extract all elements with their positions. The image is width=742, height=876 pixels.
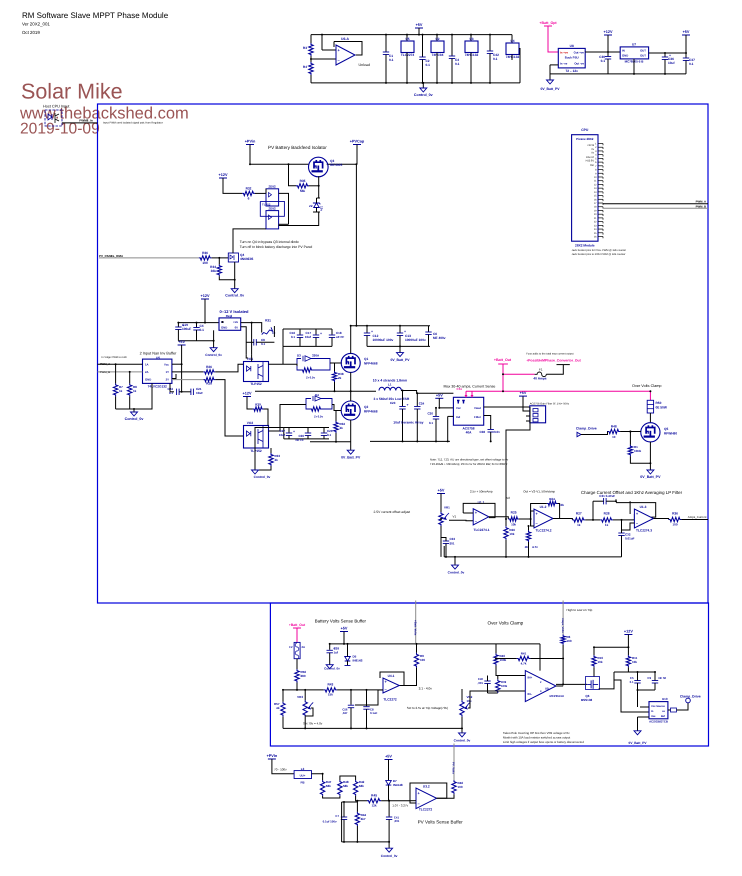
svg-text:In +ve: In +ve (560, 51, 568, 55)
svg-text:C38: C38 (479, 430, 485, 434)
svg-text:4N60E35: 4N60E35 (240, 257, 254, 261)
svg-text:PWM8_In: PWM8_In (79, 119, 93, 123)
ground dcdc (213, 330, 215, 347)
svg-text:0–12 V Isolated: 0–12 V Isolated (220, 309, 249, 314)
svg-text:2A: 2A (145, 370, 149, 374)
capacitor C31 (604, 498, 607, 504)
svg-text:10uf Ceramic Array: 10uf Ceramic Array (393, 421, 423, 425)
svg-text:0.1uf 100v: 0.1uf 100v (323, 820, 337, 824)
svg-text:74HC04: 74HC04 (432, 53, 444, 57)
ground caps (397, 353, 404, 357)
ground Control_0v q4 (231, 289, 238, 293)
svg-text:R28: R28 (604, 512, 610, 516)
wire isolator nets (289, 164, 297, 186)
capacitor C9 (652, 681, 658, 684)
svg-text:2A: 2A (302, 645, 306, 649)
svg-text:10Dk: 10Dk (634, 449, 642, 453)
resistor R48 (608, 429, 621, 433)
svg-text:+Batt_Opt: +Batt_Opt (539, 21, 557, 25)
svg-text:Amps_Current: Amps_Current (688, 515, 707, 519)
IC U4 74HC132 (511, 35, 513, 43)
resistor R34 (217, 264, 221, 276)
svg-text:Set 70v = 4.0v: Set 70v = 4.0v (303, 722, 323, 726)
resistor R43 (324, 688, 337, 692)
svg-text:U5: U5 (405, 37, 409, 41)
resistor R32 (242, 191, 255, 195)
wire filter gnd rail (370, 440, 450, 442)
transistor Q3 IRF4905 (250, 163, 308, 165)
svg-text:3.1 - 4.0v: 3.1 - 4.0v (419, 687, 433, 691)
svg-text:+: + (371, 329, 373, 333)
wire u1.2 out (553, 519, 572, 520)
opto driver ZD5a (266, 189, 279, 206)
resistor R25 (508, 517, 519, 521)
svg-text:IRF4905: IRF4905 (330, 163, 342, 167)
wire divider chain (323, 796, 340, 798)
svg-text:Buck PSU: Buck PSU (565, 56, 579, 60)
svg-text:TLP52: TLP52 (262, 203, 271, 207)
svg-text:VO2: VO2 (247, 421, 254, 425)
svg-text:CS1: CS1 (457, 387, 463, 391)
svg-text:R39: R39 (255, 403, 261, 407)
svg-text:58k: 58k (359, 784, 364, 788)
svg-text:12k: 12k (372, 804, 377, 808)
svg-text:74HC132: 74HC132 (465, 53, 479, 57)
svg-text:0V_Batt_PV: 0V_Batt_PV (540, 87, 560, 91)
ground buffer (131, 412, 138, 416)
capacitor C56 (350, 690, 352, 705)
svg-text:72 – 12v: 72 – 12v (565, 69, 578, 73)
svg-text:Picaxe 28X2: Picaxe 28X2 (576, 137, 594, 141)
svg-text:10k: 10k (632, 660, 637, 664)
wire pink sensor rail (466, 390, 650, 392)
wire u10 gnd (637, 690, 639, 707)
svg-text:330A: 330A (312, 354, 320, 358)
gate driver U10 (649, 702, 668, 719)
svg-text:Vee: Vee (651, 715, 656, 718)
svg-text:Clamp_Drive: Clamp_Drive (576, 427, 597, 431)
svg-text:R36: R36 (202, 251, 208, 255)
svg-text:MF 400v: MF 400v (433, 336, 446, 340)
svg-text:VR3: VR3 (297, 695, 303, 699)
svg-text:U7: U7 (632, 43, 636, 47)
resistor R38 (332, 371, 336, 382)
capacitor C8 (254, 339, 256, 345)
svg-text:TLC2274: TLC2274 (401, 53, 415, 57)
diode D7 (386, 781, 392, 786)
resistor R41 feedback (517, 656, 531, 660)
svg-text:Control_0v: Control_0v (454, 739, 471, 743)
svg-text:C20: C20 (427, 412, 433, 416)
transistor Q2 (341, 401, 360, 420)
svg-text:F1: F1 (539, 368, 543, 372)
ground filter (454, 557, 456, 565)
svg-text:Vcc: Vcc (164, 363, 169, 367)
svg-text:U8: U8 (570, 44, 574, 48)
svg-text:C33: C33 (450, 537, 456, 541)
svg-text:+5V: +5V (438, 489, 445, 493)
svg-text:R48: R48 (611, 425, 617, 429)
capacitor C39 (329, 644, 331, 650)
svg-text:U6-A: U6-A (341, 37, 349, 41)
resistor R3 (309, 43, 313, 56)
svg-text:1.07 - 3.27v: 1.07 - 3.27v (392, 804, 408, 808)
svg-text:2k: 2k (340, 426, 344, 430)
svg-text:TLC2272: TLC2272 (383, 698, 397, 702)
wire pwm_a (98, 363, 143, 365)
wire pink batt to PSU (548, 26, 558, 52)
svg-text:uF FF: uF FF (336, 335, 344, 339)
svg-text:R28: R28 (206, 382, 212, 386)
svg-text:U1.2: U1.2 (540, 505, 547, 509)
wire q4 nets (218, 258, 220, 264)
svg-text:BSS138: BSS138 (581, 698, 593, 702)
wire grey trip sense (562, 601, 564, 635)
svg-text:+5V: +5V (178, 340, 185, 344)
wire pv panel (99, 257, 199, 259)
resistor R57 (281, 702, 285, 717)
svg-text:R25: R25 (511, 511, 517, 515)
wire cap gnd rail (367, 345, 430, 347)
svg-text:Control_0v: Control_0v (324, 667, 340, 671)
svg-text:Q5: Q5 (664, 427, 668, 431)
resistor R10 pullup (592, 655, 596, 667)
svg-text:2.5V current offset adjust: 2.5V current offset adjust (374, 510, 411, 514)
capacitor C37 (685, 53, 687, 58)
svg-text:0.1: 0.1 (601, 59, 606, 63)
svg-text:100: 100 (458, 785, 463, 789)
svg-text:U9: U9 (545, 687, 549, 691)
svg-text:0.1: 0.1 (291, 335, 296, 339)
resistor R33b (269, 453, 273, 466)
wire r50 to q5 (649, 413, 651, 423)
svg-text:70 - 100v: 70 - 100v (274, 767, 287, 771)
svg-text:201: 201 (450, 542, 455, 546)
svg-text:0.1: 0.1 (630, 680, 634, 684)
svg-text:+12V: +12V (201, 294, 210, 298)
svg-text:10uf: 10uf (668, 61, 675, 65)
svg-text:ZD52: ZD52 (268, 185, 276, 189)
svg-text:TLP152: TLP152 (250, 449, 262, 453)
svg-text:IN4148: IN4148 (393, 783, 403, 787)
capacitor C7 (341, 817, 347, 820)
svg-text:Clamp_Drive: Clamp_Drive (680, 695, 701, 699)
regulator U7 (620, 47, 648, 59)
wire host cpu to border (62, 122, 98, 124)
svg-text:100: 100 (420, 658, 425, 662)
capacitor C42 (489, 35, 491, 51)
wire pink fuse2 (296, 628, 298, 642)
svg-text:0.1: 0.1 (455, 62, 460, 66)
ground pv (388, 842, 390, 848)
svg-text:NF FF: NF FF (296, 438, 305, 442)
svg-text:10: 10 (272, 331, 276, 335)
svg-text:U4: U4 (510, 39, 514, 43)
svg-text:R50: R50 (656, 401, 662, 405)
svg-text:Fuse adds to the total max cur: Fuse adds to the total max current outpu… (526, 353, 574, 356)
svg-text:Control_0v: Control_0v (381, 854, 398, 858)
wire r41 net (496, 658, 517, 660)
svg-text:Control_0v: Control_0v (125, 417, 144, 421)
resistor R45 (367, 799, 381, 803)
wire drain rail (355, 164, 357, 325)
svg-text:Jack Socket pins for C/A+ PWM: Jack Socket pins for C/A+ PWM @ 32k coun… (572, 249, 627, 252)
svg-text:Solar Mike: Solar Mike (21, 79, 123, 103)
svg-text:V1: V1 (453, 515, 457, 519)
svg-text:+: + (320, 331, 322, 335)
resistor R37 gate loop q1 (297, 366, 301, 370)
svg-text:58k: 58k (326, 784, 331, 788)
svg-text:Control_0v: Control_0v (448, 571, 465, 575)
wire gate q1 (293, 364, 297, 366)
IC U3 74HC132 (470, 35, 472, 41)
svg-text:VR1: VR1 (444, 506, 450, 510)
wire gate q2 (269, 405, 307, 432)
svg-text:+: + (407, 403, 409, 407)
wire q2 source rail (310, 441, 351, 443)
wire r45 node (381, 800, 411, 802)
svg-text:+5V: +5V (385, 755, 392, 759)
wire vr1 wiper to opamp (449, 519, 473, 521)
wire PWM_A to border (603, 203, 708, 205)
svg-text:+5V B: +5V B (587, 144, 594, 147)
op-amp U4.1 (383, 678, 399, 693)
wire pink down to R50 (649, 391, 651, 400)
svg-text:Ref: Ref (661, 715, 665, 718)
transistor Q6 BSS138 symbol (587, 680, 598, 689)
svg-text:Set to 2.5v at Trip Voltage(70: Set to 2.5v at Trip Voltage(70v) (407, 706, 448, 710)
svg-text:Viout: Viout (474, 406, 481, 410)
svg-text:74LVC2G132: 74LVC2G132 (148, 385, 167, 389)
svg-text:4.7k: 4.7k (521, 662, 527, 666)
capacitor C12 (366, 326, 368, 333)
svg-text:C24: C24 (419, 402, 425, 406)
svg-text:10: 10 (612, 435, 616, 439)
capacitor C36 (664, 53, 666, 57)
wire dcdc rails (178, 322, 219, 324)
svg-text:+5V: +5V (683, 30, 690, 34)
op-amp U3.2 (416, 788, 437, 809)
svg-text:ZD52: ZD52 (268, 207, 276, 211)
svg-text:,001: ,001 (478, 681, 484, 685)
svg-text:4k: 4k (276, 706, 280, 710)
svg-text:In Volge PWM to redri: In Volge PWM to redri (102, 356, 128, 359)
resistor R39c (496, 679, 500, 693)
svg-text:0.1: 0.1 (327, 433, 332, 437)
svg-text:U3.2: U3.2 (423, 785, 430, 789)
wire psu ground rail (550, 65, 686, 74)
wire half bridge (350, 326, 352, 354)
svg-text:Q2: Q2 (364, 405, 368, 409)
wire grey batt volts sense (415, 601, 417, 644)
caps row C16 C17 C18 bootstrap (269, 363, 294, 365)
resistor R26b (504, 526, 508, 540)
svg-text:0.01: 0.01 (494, 430, 500, 434)
svg-text:U1.3: U1.3 (640, 505, 647, 509)
svg-text:R41: R41 (521, 652, 527, 656)
svg-text:0.1: 0.1 (389, 58, 394, 62)
svg-text:OUT: OUT (640, 49, 646, 53)
svg-text:Din: Din (590, 164, 594, 167)
svg-text:R45: R45 (371, 794, 377, 798)
wire r6 down (562, 645, 564, 685)
svg-text:U3: U3 (469, 37, 473, 41)
svg-text:High to Low on Trip: High to Low on Trip (567, 608, 593, 612)
svg-text:MCP6541U: MCP6541U (550, 694, 564, 698)
wire pink batt out (502, 364, 504, 391)
resistor R24 feedback (547, 501, 558, 505)
main schematic border (98, 104, 709, 603)
svg-text:2 Input Nan Inv Buffer: 2 Input Nan Inv Buffer (140, 352, 178, 356)
current sensor ACS758 (453, 397, 483, 425)
svg-text:10k: 10k (511, 523, 516, 527)
capacitor C19 (177, 323, 179, 327)
svg-text:Takes Pole Inverting OP 3ns th: Takes Pole Inverting OP 3ns then VR2 vol… (503, 731, 570, 735)
caps row C27 C30 C29 (284, 427, 329, 429)
capacitor C2 (422, 35, 424, 57)
buck PSU module U8 (558, 48, 585, 68)
svg-text:R27: R27 (576, 512, 582, 516)
ground Control_0v top (422, 83, 424, 88)
svg-text:Control_0v: Control_0v (205, 353, 222, 357)
DC-DC module (219, 318, 241, 330)
wire vr2 wiper to comparator (468, 691, 525, 708)
svg-text:R32: R32 (246, 187, 252, 191)
wire comparator out (556, 685, 563, 687)
svg-text:+PVIn: +PVIn (267, 754, 278, 758)
svg-text:0V_Batt_PV: 0V_Batt_PV (341, 456, 361, 460)
svg-text:IN914S: IN914S (353, 659, 363, 663)
op-amp U6 (336, 45, 355, 65)
svg-text:2Y: 2Y (166, 378, 170, 382)
svg-text:1k: 1k (605, 523, 609, 527)
wire r56 node (296, 683, 298, 690)
svg-text:,001: ,001 (394, 819, 400, 823)
transistor Q5 (641, 423, 660, 442)
wire filter gnd rail (444, 556, 621, 558)
resistor R32 gate q2 (334, 421, 338, 433)
resistor R39b (253, 407, 264, 411)
wire clampdrive to r48 (581, 432, 609, 435)
resistor R11 (626, 655, 630, 667)
IC U5 TLC2274 (406, 35, 408, 41)
svg-text:0.1: 0.1 (426, 63, 431, 67)
svg-text:1k: 1k (577, 523, 581, 527)
ground vr2 (461, 728, 463, 733)
capacitor C38 (488, 430, 494, 433)
ground c39 (329, 661, 331, 665)
svg-text:2k: 2k (275, 458, 279, 462)
capacitor C5 (634, 681, 640, 684)
resistor R35 (296, 184, 309, 188)
svg-text:10k: 10k (509, 532, 514, 536)
svg-text:58k: 58k (343, 784, 348, 788)
svg-text:Control_0v: Control_0v (225, 294, 244, 298)
capacitor C41 (388, 801, 390, 817)
svg-text:C23: C23 (390, 401, 396, 405)
svg-text:+5V: +5V (416, 23, 423, 27)
svg-text:+PVin: +PVin (245, 140, 256, 144)
resistor R44 (355, 812, 359, 826)
svg-text:680: 680 (301, 674, 306, 678)
svg-text:TLP152: TLP152 (250, 382, 262, 386)
svg-text:40A: 40A (466, 431, 473, 435)
svg-text:Host CPU Input: Host CPU Input (43, 105, 70, 109)
capacitor C32 (618, 533, 624, 536)
svg-text:0V_Batt_PV: 0V_Batt_PV (629, 741, 648, 745)
wire l3 to divider (312, 774, 323, 780)
svg-text:2.5v + 50mvAmp: 2.5v + 50mvAmp (470, 490, 493, 494)
svg-text:36k: 36k (211, 269, 217, 273)
resistor R47 (320, 780, 324, 796)
svg-text:2k: 2k (338, 376, 342, 380)
svg-text:R3: R3 (303, 46, 307, 50)
svg-text:0.1uF: 0.1uF (370, 711, 378, 715)
svg-text:TLC2274.3: TLC2274.3 (636, 529, 652, 533)
wire pink branch fuse (503, 373, 535, 375)
svg-text:Source: Source (656, 705, 665, 708)
svg-text:6: 6 (248, 197, 250, 201)
wire q5 source (649, 442, 651, 470)
resistor R46 (452, 780, 456, 794)
op-amp U1.3 (634, 509, 653, 528)
svg-text:+PossibleMPhase_Convertor_Out: +PossibleMPhase_Convertor_Out (526, 358, 581, 362)
svg-text:+Batt_Volts: +Batt_Volts (414, 620, 418, 636)
capacitor C21 (191, 389, 194, 395)
svg-text:10uf: 10uf (305, 335, 311, 339)
capacitor C13 (399, 326, 401, 333)
svg-text:TLC2274.2: TLC2274.2 (536, 529, 552, 533)
svg-text:Charge Current Offset and 1Khz: Charge Current Offset and 1Khz Averaging… (581, 490, 683, 495)
svg-text:R43: R43 (327, 683, 333, 687)
svg-text:RFWH80: RFWH80 (664, 432, 677, 436)
resistor R28b (600, 518, 613, 522)
resistor R4 (309, 62, 313, 75)
resistor R41 gate loop q2 (306, 405, 310, 410)
opto input device (45, 110, 62, 126)
svg-text:10uF: 10uF (196, 391, 203, 395)
resistor R9 (414, 653, 418, 668)
svg-text:TLC2272: TLC2272 (419, 808, 433, 812)
capacitor C20 (435, 408, 437, 416)
svg-text:28X2 Module: 28X2 Module (575, 244, 595, 248)
wire op-amp input (311, 58, 336, 60)
svg-text:PV Battery Backfeed Isolator: PV Battery Backfeed Isolator (268, 145, 327, 150)
svg-text:CPU: CPU (581, 128, 589, 132)
svg-text:Turn on Q4 to bypass Q3 intern: Turn on Q4 to bypass Q3 internal diode (240, 240, 299, 244)
svg-text:12v: 12v (320, 206, 324, 211)
u1.1 feedback (463, 503, 495, 517)
svg-text:+12V: +12V (219, 173, 228, 177)
svg-text:1Y: 1Y (166, 370, 170, 374)
svg-text:0E 50W: 0E 50W (656, 406, 667, 410)
resistor R23 zener (526, 530, 530, 542)
resistor R6 (561, 635, 565, 645)
transistor Q1 (341, 353, 360, 372)
wire q4 gate up (233, 229, 266, 253)
svg-text:R4: R4 (303, 65, 307, 69)
svg-text:R31: R31 (265, 319, 271, 323)
svg-text:0.1: 0.1 (429, 421, 434, 425)
svg-text:+5V: +5V (341, 627, 348, 631)
svg-text:1uf: 1uf (334, 651, 339, 655)
capacitor C40 (484, 681, 490, 684)
capacitor C6 (428, 326, 430, 332)
svg-text:Control_0v: Control_0v (414, 93, 433, 97)
svg-text:+12V: +12V (624, 630, 633, 634)
op-amp U1.2 (534, 509, 553, 528)
resistor R31 diag (262, 327, 273, 334)
